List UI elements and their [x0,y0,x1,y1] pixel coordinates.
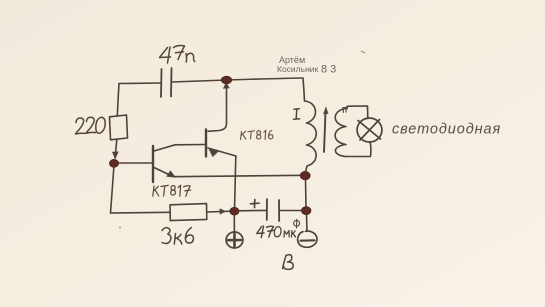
handwritten value labels [76,46,348,270]
wire bottom rail left [111,211,171,214]
wire left rail bottom [111,168,114,213]
KT817 emitter arrow [167,171,176,178]
label KT816 [241,131,246,139]
transistor Q2 KT817 bar [152,146,154,182]
label 47n [160,48,171,58]
pencil speck [361,51,365,53]
label KT817 [153,186,159,196]
arrow up below top junction [223,83,229,89]
wire after R2 [207,210,231,213]
KT816 emitter [208,148,236,156]
node top junction [221,76,231,84]
KT817 emitter [154,168,173,177]
wire top rail right segment [172,78,304,82]
wire transformer bottom drop [305,179,308,207]
plus sign of capacitor C2 [251,200,260,208]
wire below R1 [115,140,117,158]
capacitor C2 470uF plates [266,199,268,220]
transformer primary winding I [305,101,317,172]
resistor R1 220 body [110,115,128,140]
label I primary [294,109,300,120]
transformer core arrow [323,107,328,114]
svg-text:Косильник: Косильник [277,64,319,74]
label II secondary [343,107,348,112]
wire right drop to transformer primary [303,79,305,102]
wire KT816 emitter drop [235,156,236,211]
wire emitter rail to transformer bottom [173,175,305,176]
junction dots [109,76,311,215]
pencil dot [119,227,121,229]
wire KT817 collector to KT816 base [154,145,205,152]
wire left rail top [117,84,119,117]
arrow on bottom rail [220,209,226,215]
wire KT816 collector drop [208,86,227,131]
node bottom rail junction right [301,207,311,215]
node transformer bottom junction [300,171,310,179]
wire secondary bottom to lamp [346,142,371,157]
label B battery [283,256,287,269]
transistor Q1 KT816 bar [205,130,207,157]
capacitor C1 47n plates [160,69,163,97]
wire top rail left segment [119,82,161,85]
label 470uF [257,227,264,234]
transformer core [324,112,326,152]
pencil name text [119,51,365,229]
node KT817 base junction [109,159,118,167]
svg-text:8 3: 8 3 [321,64,336,76]
wire to capacitor C2 [238,209,267,211]
label 220 [76,118,86,134]
wire KT817 base [114,162,152,164]
KT816 emitter arrow [209,148,220,157]
lamp LED indicator [357,118,382,142]
arrow into base junction [112,152,118,159]
label 3k6 [162,228,171,244]
svg-text:светодиодная: светодиодная [392,122,501,138]
battery minus terminal [298,231,317,247]
resistor R2 3k6 body [170,204,207,221]
labels in ink [241,130,273,139]
wire secondary top to lamp [347,106,368,119]
label uF superscript [296,219,298,228]
wire C2 to right junction [280,210,303,212]
node bottom rail junction left [230,207,239,215]
battery plus terminal [226,232,243,248]
transformer secondary winding II [335,109,347,157]
wire to battery plus [233,215,235,232]
wire to battery minus [306,215,309,232]
